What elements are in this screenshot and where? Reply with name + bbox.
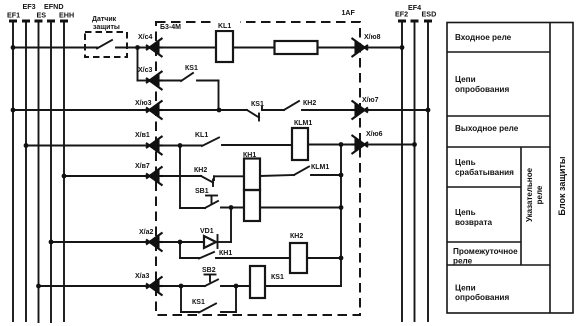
svg-text:КН2: КН2	[303, 100, 316, 107]
svg-text:VD1: VD1	[200, 228, 214, 235]
svg-text:Х/в7: Х/в7	[135, 163, 150, 170]
svg-text:EF1: EF1	[7, 11, 20, 20]
svg-text:SВ1: SВ1	[195, 188, 209, 195]
svg-text:Х/с3: Х/с3	[138, 67, 153, 74]
svg-text:EF2: EF2	[395, 10, 408, 19]
svg-text:Цепи: Цепи	[455, 75, 476, 84]
svg-text:защиты: защиты	[93, 24, 120, 31]
svg-text:КН1: КН1	[219, 250, 232, 257]
svg-text:EF3: EF3	[23, 2, 36, 11]
svg-text:Х/в1: Х/в1	[135, 132, 150, 139]
svg-text:Указательное: Указательное	[525, 167, 534, 222]
svg-text:ES: ES	[37, 11, 47, 20]
svg-text:KL1: KL1	[195, 132, 208, 139]
svg-text:КS1: КS1	[192, 299, 205, 306]
svg-text:EF4: EF4	[408, 3, 421, 12]
svg-text:Датчик: Датчик	[92, 16, 117, 23]
svg-text:КS1: КS1	[271, 274, 284, 281]
svg-text:КН2: КН2	[194, 167, 207, 174]
svg-text:КН1: КН1	[243, 152, 256, 159]
svg-text:КН2: КН2	[290, 233, 303, 240]
svg-text:КS1: КS1	[185, 65, 198, 72]
svg-text:Б3-4М: Б3-4М	[160, 24, 181, 31]
svg-text:Цепь: Цепь	[455, 208, 476, 217]
svg-text:опробования: опробования	[455, 292, 509, 302]
svg-text:ESD: ESD	[422, 10, 437, 19]
svg-text:Цепь: Цепь	[455, 158, 476, 167]
svg-text:SВ2: SВ2	[202, 267, 216, 274]
svg-text:реле: реле	[453, 257, 473, 266]
svg-text:срабатывания: срабатывания	[455, 167, 514, 177]
svg-text:Х/с4: Х/с4	[138, 34, 153, 41]
svg-text:KL1: KL1	[218, 23, 231, 30]
svg-text:реле: реле	[535, 185, 544, 204]
svg-text:Х/ю3: Х/ю3	[135, 100, 152, 107]
svg-text:Входное реле: Входное реле	[455, 33, 512, 42]
svg-text:Х/ю6: Х/ю6	[366, 131, 383, 138]
svg-text:Выходное реле: Выходное реле	[455, 124, 519, 133]
svg-text:КS1: КS1	[251, 101, 264, 108]
svg-text:Блок защиты: Блок защиты	[557, 156, 567, 215]
svg-text:возврата: возврата	[455, 218, 492, 227]
svg-text:Х/ю7: Х/ю7	[362, 97, 379, 104]
svg-text:опробования: опробования	[455, 84, 509, 94]
svg-text:1AF: 1AF	[342, 10, 356, 17]
svg-text:КLМ1: КLМ1	[311, 164, 329, 171]
svg-text:Х/ю8: Х/ю8	[364, 34, 381, 41]
svg-text:Х/а2: Х/а2	[139, 229, 154, 236]
svg-text:Цепи: Цепи	[455, 284, 476, 293]
svg-text:Промежуточное: Промежуточное	[453, 247, 518, 256]
svg-text:КLМ1: КLМ1	[294, 120, 312, 127]
svg-text:EHH: EHH	[59, 11, 74, 20]
svg-text:Х/а3: Х/а3	[135, 273, 150, 280]
